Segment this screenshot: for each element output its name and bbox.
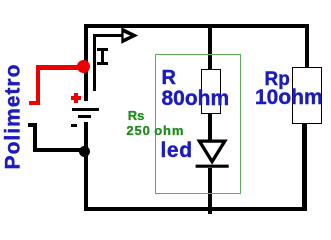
wire middle vertical upper xyxy=(208,28,212,69)
battery B1 plus sign xyxy=(71,96,81,100)
label Polimetro xyxy=(3,59,24,173)
node junction red (positive probe) xyxy=(77,60,90,73)
wire top horizontal xyxy=(84,24,309,28)
battery B1 negative plate xyxy=(78,115,91,118)
wire left vertical upper xyxy=(84,24,89,101)
wire red probe tip xyxy=(29,101,40,105)
label 80ohm xyxy=(162,88,230,109)
label ohm (of 250 ohm) xyxy=(154,124,184,137)
current arrow I horizontal xyxy=(93,34,126,37)
wire red probe vertical xyxy=(36,65,41,106)
label I xyxy=(97,48,108,65)
wire middle below led xyxy=(208,168,212,214)
wire bottom horizontal xyxy=(84,207,307,211)
box Rs (green enclosure) xyxy=(155,54,241,194)
wire black probe tip xyxy=(28,123,37,127)
wire black probe vertical xyxy=(33,123,37,152)
node junction black (negative probe) xyxy=(79,146,90,157)
wire red probe horizontal xyxy=(36,65,84,70)
current arrow I head xyxy=(118,24,142,48)
wire black probe horizontal xyxy=(33,148,84,152)
label 250 ohm xyxy=(126,124,150,137)
label led xyxy=(161,140,193,161)
battery B1 positive plate xyxy=(72,108,99,111)
resistor R 80ohm body xyxy=(201,69,221,114)
current arrow I vertical xyxy=(93,34,96,91)
label R xyxy=(162,68,176,88)
label Rs xyxy=(128,109,145,122)
wire right vertical lower xyxy=(302,124,307,209)
wire left vertical lower xyxy=(84,122,89,211)
diode led D1 xyxy=(194,136,230,172)
battery B1 minus sign xyxy=(71,124,77,127)
wire right vertical upper xyxy=(305,24,309,67)
resistor Rp 10ohm body xyxy=(292,67,322,124)
label 10ohm xyxy=(255,87,323,108)
label Rp xyxy=(265,70,290,89)
wire middle between R and led xyxy=(208,114,212,141)
